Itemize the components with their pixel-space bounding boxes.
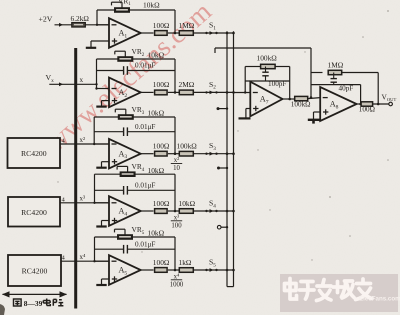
svg-text:100Ω: 100Ω <box>153 80 170 89</box>
capacitor 0.01uF A4 feedback <box>95 189 124 191</box>
wire bus bottom link <box>227 286 234 288</box>
op-amp A5 <box>109 255 141 285</box>
capacitor 40pF A8 feedback <box>311 84 361 86</box>
watermark www.elecfans.com <box>40 0 217 157</box>
resistor 100k between A7 and A8 <box>295 96 308 100</box>
junction Vx to A2 <box>95 83 97 85</box>
ground A3 <box>101 162 103 168</box>
scan specks (noise) <box>387 10 389 12</box>
resistor 100R A2 output <box>155 90 168 95</box>
wire A5 inverting input <box>95 260 110 262</box>
resistor 1MΩ A1 <box>179 31 193 36</box>
caption text 图8-39电路 <box>14 299 22 306</box>
node Vout terminal <box>389 102 393 106</box>
potentiometer VR2 10k <box>97 58 118 60</box>
svg-text:100Ω: 100Ω <box>359 106 375 114</box>
svg-text:0.01μF: 0.01μF <box>135 62 155 70</box>
svg-text:RC4200: RC4200 <box>22 267 48 276</box>
ground A4 <box>101 221 103 227</box>
resistor 100R A3 output <box>155 151 168 156</box>
junction bus dots <box>226 210 229 213</box>
wire A4 feedback right vertical <box>174 174 176 211</box>
svg-text:10kΩ: 10kΩ <box>148 229 165 238</box>
wire A5 non-inverting to ground <box>102 278 110 280</box>
resistor 100k A7 feedback <box>245 66 260 68</box>
capacitor 100pF A7 feedback <box>245 80 290 82</box>
wire to S5 node <box>193 269 233 271</box>
wire A3 feedback right vertical <box>174 117 176 154</box>
svg-text:1000: 1000 <box>170 281 184 288</box>
wire to S3 node <box>193 153 233 155</box>
wire RC4200 U1 output pin 4 <box>60 143 109 145</box>
ground A5 <box>101 279 103 285</box>
wire A1 inverting input <box>97 24 109 26</box>
wire A2 output <box>141 91 154 93</box>
svg-text:x²: x² <box>174 157 179 164</box>
wire to S1 node <box>193 32 233 34</box>
svg-text:1MΩ: 1MΩ <box>179 21 195 30</box>
svg-text:RC4200: RC4200 <box>21 149 47 158</box>
junction bus dots <box>226 32 229 35</box>
svg-text:x⁴: x⁴ <box>174 273 180 280</box>
svg-text:2MΩ: 2MΩ <box>179 80 195 89</box>
potentiometer VR3 10k <box>94 116 118 118</box>
resistor 100R A8 output <box>361 102 373 106</box>
capacitor 0.01uF A2 feedback <box>97 70 124 72</box>
wire stub below S3 <box>219 167 229 169</box>
node open circle stub below S4 <box>217 225 221 229</box>
wire A3 output <box>141 153 154 155</box>
ground A7 <box>239 117 251 119</box>
resistor 2MΩ A2 <box>179 90 193 95</box>
potentiometer VR1 10k <box>97 9 115 11</box>
op-amp A1 <box>109 18 141 48</box>
svg-text:RC4200: RC4200 <box>21 208 47 217</box>
svg-text:8—39: 8—39 <box>24 299 43 308</box>
svg-text:100Ω: 100Ω <box>153 142 170 151</box>
wire A1 non-inverting to ground <box>91 40 109 42</box>
scan edge smudge <box>0 304 5 315</box>
svg-text:10kΩ: 10kΩ <box>148 166 165 175</box>
svg-text:100Ω: 100Ω <box>153 21 170 30</box>
potentiometer VR4 10k <box>95 173 121 175</box>
wire A5 feedback right vertical <box>174 237 176 270</box>
capacitor 0.01uF A3 feedback <box>94 131 123 133</box>
wire A1 output <box>141 32 154 34</box>
svg-text:100Ω: 100Ω <box>153 199 170 208</box>
resistor 100R A5 output <box>155 268 168 273</box>
wire A8 input node vertical <box>310 48 312 98</box>
wire summing bus B <box>233 31 235 286</box>
wire A1 feedback left vertical <box>96 10 98 25</box>
wire to S4 node <box>193 210 233 212</box>
resistor 6.2k input <box>72 23 86 27</box>
wire A7 feedback right vertical <box>289 67 291 100</box>
resistor 1M A8 feedback <box>311 72 323 74</box>
wire 40pF branch to output <box>360 85 362 104</box>
wire A2 feedback left vertical <box>96 59 98 89</box>
wire A4 output <box>141 210 154 212</box>
svg-text:10kΩ: 10kΩ <box>179 199 196 208</box>
wire A8 non-inverting to ground <box>314 111 321 113</box>
wire A7 inverting input <box>234 92 251 94</box>
wire long feed horizontal <box>215 47 311 49</box>
svg-text:0.01μF: 0.01μF <box>135 182 155 190</box>
ground A1 <box>90 41 92 48</box>
ground A8 <box>308 119 320 121</box>
junction bus dots <box>226 269 229 272</box>
wire stub below S2 <box>218 108 228 110</box>
wire A7 non-inverting to ground <box>246 108 250 110</box>
junction bus dots <box>226 152 229 155</box>
svg-text:10: 10 <box>173 165 180 172</box>
wire +2V input <box>55 24 73 26</box>
svg-text:40pF: 40pF <box>339 85 354 93</box>
svg-text:1MΩ: 1MΩ <box>328 61 344 70</box>
svg-text:ElecFans.com: ElecFans.com <box>359 296 400 303</box>
op-amp A8 <box>320 87 356 121</box>
svg-text:100Ω: 100Ω <box>153 258 170 267</box>
wire RC4200 U3 output pin 4 <box>61 260 109 262</box>
wire A2 non-inverting to ground <box>102 100 110 102</box>
svg-text:10kΩ: 10kΩ <box>148 51 165 60</box>
wire A2 feedback right vertical <box>174 59 176 92</box>
svg-text:x⁴: x⁴ <box>80 253 87 261</box>
resistor 1kΩ A5 <box>179 268 193 273</box>
svg-text:6.2kΩ: 6.2kΩ <box>71 14 90 23</box>
svg-text:0.01μF: 0.01μF <box>135 240 155 248</box>
wire Vx input <box>49 83 96 85</box>
wire A4 feedback left vertical <box>94 174 96 203</box>
wire A7 output <box>283 98 295 100</box>
svg-text:x³: x³ <box>80 195 86 203</box>
ground A2 <box>101 101 103 107</box>
wire A5 output <box>141 269 154 271</box>
wire A2 inverting input <box>97 88 110 90</box>
op-amp A7 <box>250 82 282 117</box>
svg-text:+2V: +2V <box>39 15 53 24</box>
op-amp A3 <box>109 139 141 169</box>
wire A8 output <box>357 103 362 105</box>
wire A4 non-inverting to ground <box>102 220 110 222</box>
caption double arrow <box>3 293 67 295</box>
potentiometer VR5 10k <box>95 236 118 238</box>
junction bus dots <box>226 91 229 94</box>
svg-text:x²: x² <box>80 136 86 144</box>
wire x bus thick vertical <box>74 48 77 309</box>
svg-text:100pF: 100pF <box>268 80 286 88</box>
op-amp A4 <box>109 196 141 226</box>
svg-text:0.01μF: 0.01μF <box>135 123 155 131</box>
resistor 100R A4 output <box>155 209 168 214</box>
wire summing bus A <box>226 31 228 286</box>
svg-text:x: x <box>80 76 84 84</box>
logo block elecfans <box>280 274 398 312</box>
capacitor 0.01uF A5 feedback <box>95 248 124 250</box>
wire A4 inverting input <box>95 202 110 204</box>
wire A3 feedback left vertical <box>93 117 95 144</box>
op-amp A2 <box>109 78 141 108</box>
svg-text:x³: x³ <box>174 214 179 221</box>
resistor 10kΩ A4 <box>179 209 193 214</box>
wire RC4200 U2 output pin 4 <box>60 202 109 204</box>
multiplier RC4200 U3 <box>8 255 61 286</box>
svg-text:100kΩ: 100kΩ <box>257 54 278 63</box>
resistor 100R A1 output <box>155 31 168 36</box>
wire A5 feedback left vertical <box>94 237 96 261</box>
wire to S2 node <box>193 91 233 93</box>
wire A7 feedback left vertical <box>244 67 246 93</box>
resistor 100kΩ A3 <box>179 151 193 156</box>
svg-text:100: 100 <box>171 222 182 229</box>
wire A3 non-inverting to ground <box>102 161 110 163</box>
multiplier RC4200 U2 <box>8 197 60 227</box>
multiplier RC4200 U1 <box>8 138 61 168</box>
wire A3 inverting input <box>94 143 109 145</box>
svg-text:10kΩ: 10kΩ <box>148 109 165 118</box>
svg-text:100kΩ: 100kΩ <box>177 142 198 151</box>
wire to A1 inverting input <box>85 24 109 26</box>
svg-text:10kΩ: 10kΩ <box>143 1 160 10</box>
wire A1 feedback right vertical <box>174 10 176 33</box>
svg-text:1kΩ: 1kΩ <box>179 258 192 267</box>
svg-text:100kΩ: 100kΩ <box>291 100 311 108</box>
wire A8 feedback right vertical <box>377 73 379 105</box>
